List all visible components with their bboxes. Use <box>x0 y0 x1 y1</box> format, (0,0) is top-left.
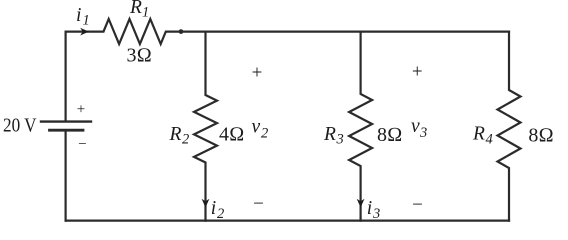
svg-text:1: 1 <box>142 5 149 21</box>
svg-text:i: i <box>367 198 372 219</box>
svg-text:v: v <box>411 116 420 137</box>
svg-text:R: R <box>129 0 142 18</box>
svg-text:i: i <box>211 198 216 219</box>
svg-text:+: + <box>252 63 263 84</box>
svg-text:4Ω: 4Ω <box>219 124 244 146</box>
svg-text:1: 1 <box>83 13 90 29</box>
svg-text:2: 2 <box>182 132 189 148</box>
svg-text:3Ω: 3Ω <box>127 45 152 67</box>
svg-text:3: 3 <box>336 132 344 148</box>
svg-text:3: 3 <box>372 206 380 222</box>
svg-text:R: R <box>472 124 485 145</box>
svg-text:+: + <box>412 62 423 83</box>
svg-text:i: i <box>76 5 81 26</box>
svg-text:R: R <box>323 124 336 145</box>
svg-text:+: + <box>77 102 85 118</box>
svg-text:−: − <box>253 194 264 215</box>
svg-text:2: 2 <box>217 206 224 222</box>
svg-text:R: R <box>169 124 182 145</box>
svg-text:8Ω: 8Ω <box>528 124 553 146</box>
svg-text:20 V: 20 V <box>3 114 37 136</box>
svg-text:−: − <box>412 194 423 215</box>
svg-text:v: v <box>252 117 261 138</box>
svg-text:3: 3 <box>419 125 427 141</box>
svg-text:8Ω: 8Ω <box>377 124 402 146</box>
svg-text:2: 2 <box>261 126 268 142</box>
svg-text:−: − <box>78 137 86 153</box>
svg-text:4: 4 <box>486 132 493 148</box>
